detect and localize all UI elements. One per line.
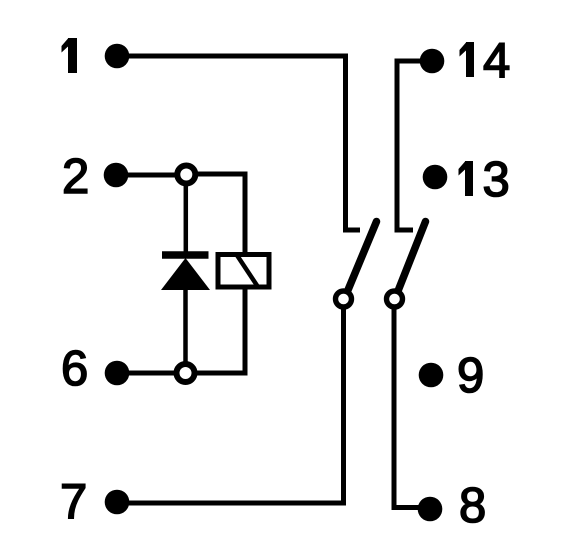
- node A (junction circle, pin 2 row): [177, 166, 195, 184]
- wire: pin 2 to node A: [124, 173, 177, 178]
- node B (junction circle, pin 6 row): [177, 364, 195, 382]
- wire: pin 14 to switch S2 fixed contact: [397, 61, 424, 230]
- pin 6 terminal dot: [105, 361, 130, 386]
- switch S2 pivot circle: [387, 291, 403, 307]
- pin 13 label "1" (custom glyph): [459, 161, 474, 196]
- pin 14 label "1" (custom glyph): [460, 42, 475, 77]
- svg-text:4: 4: [483, 34, 510, 88]
- pin 1 label "1" (custom glyph: stem + flag): [62, 38, 78, 73]
- wire: coil bottom to node B: [196, 287, 245, 373]
- wire: diode anode to node B: [183, 289, 188, 366]
- diode D1 triangle (anode, pointing up): [161, 258, 210, 290]
- svg-text:3: 3: [483, 153, 510, 207]
- svg-text:6: 6: [61, 342, 88, 396]
- switch S2 movable blade: [396, 222, 426, 297]
- pin 8 terminal dot: [418, 497, 443, 522]
- wire: node A to diode cathode: [184, 183, 189, 253]
- pin 14 terminal dot: [420, 49, 445, 74]
- svg-text:9: 9: [457, 349, 484, 403]
- svg-text:7: 7: [60, 475, 87, 529]
- pin 1 terminal dot: [105, 44, 130, 69]
- pin 2 terminal dot: [104, 163, 129, 188]
- pin 9 terminal dot: [419, 363, 444, 388]
- pin 7 terminal dot: [105, 490, 130, 515]
- pin 13 terminal dot: [423, 165, 448, 190]
- wire: switch S1 common to pin 7: [126, 308, 344, 503]
- switch S1 pivot circle: [336, 291, 352, 307]
- svg-text:8: 8: [459, 479, 486, 533]
- switch S1 movable blade: [346, 222, 377, 297]
- diode D1 cathode bar: [162, 251, 209, 259]
- svg-text:2: 2: [62, 150, 89, 204]
- wire: switch S2 common to pin 8: [394, 308, 421, 508]
- wire: pin 1 to switch S1 fixed contact: [125, 56, 360, 230]
- relay coil K1 (rectangle with diagonal): [218, 255, 269, 288]
- wire: node A to coil top: [196, 174, 245, 254]
- wire: node B to pin 6: [125, 371, 175, 376]
